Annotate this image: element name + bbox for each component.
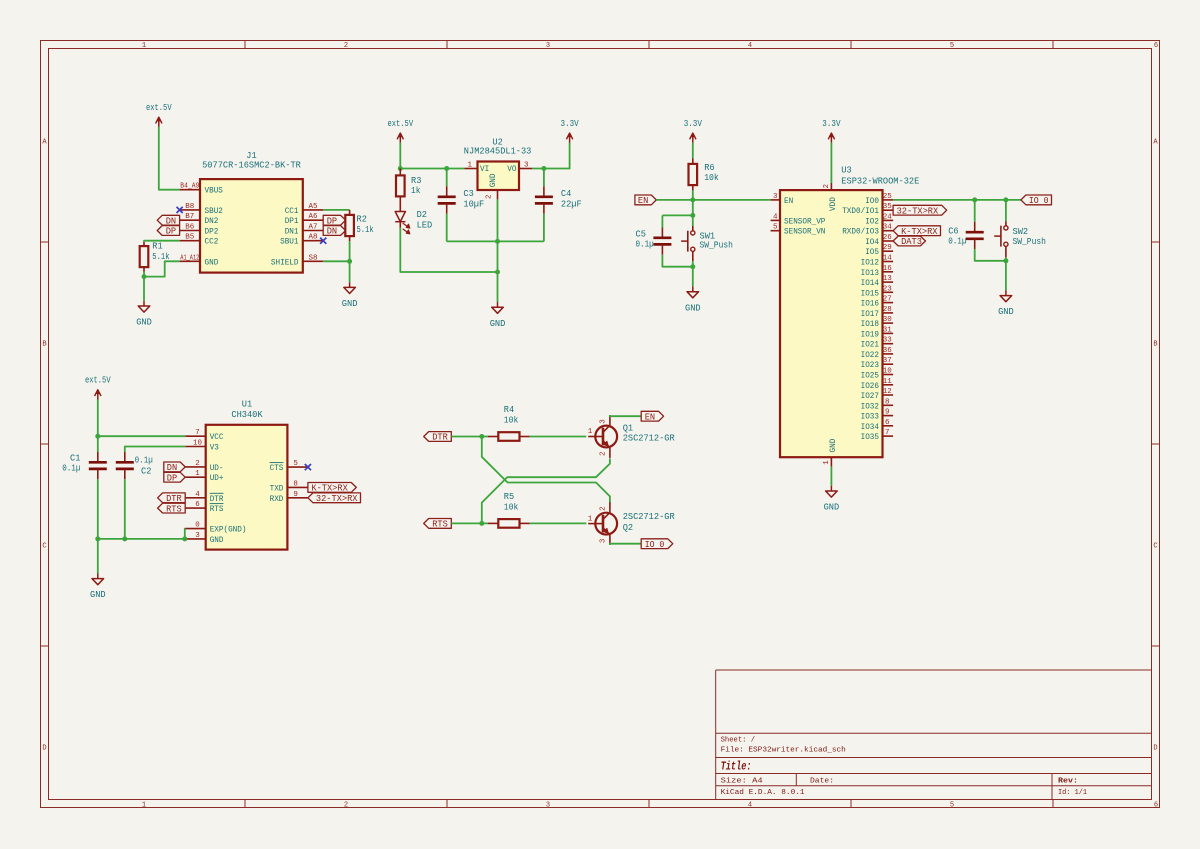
svg-text:A7: A7 <box>309 224 318 232</box>
svg-text:B7: B7 <box>185 213 194 221</box>
svg-text:5.1k: 5.1k <box>152 251 169 262</box>
svg-text:SBU2: SBU2 <box>205 207 223 216</box>
svg-text:C: C <box>1153 542 1157 550</box>
svg-text:TXD0/IO1: TXD0/IO1 <box>842 206 879 216</box>
svg-text:IO23: IO23 <box>861 361 879 370</box>
svg-text:ext.5V: ext.5V <box>388 118 414 129</box>
svg-text:IO14: IO14 <box>861 279 879 288</box>
svg-text:File: ESP32writer.kicad_sch: File: ESP32writer.kicad_sch <box>721 746 846 754</box>
svg-text:Q1: Q1 <box>623 422 634 433</box>
svg-text:IO25: IO25 <box>861 372 879 381</box>
svg-text:IO 0: IO 0 <box>1029 195 1049 206</box>
svg-text:NJM2845DL1-33: NJM2845DL1-33 <box>464 146 532 157</box>
svg-text:LED: LED <box>417 220 433 231</box>
svg-text:9: 9 <box>885 409 890 417</box>
svg-text:23: 23 <box>883 285 892 293</box>
svg-text:37: 37 <box>883 357 892 365</box>
svg-text:IO21: IO21 <box>861 341 879 350</box>
svg-text:IO22: IO22 <box>861 351 879 360</box>
svg-text:1: 1 <box>588 428 593 436</box>
svg-text:GND: GND <box>824 502 840 513</box>
svg-text:28: 28 <box>883 306 892 314</box>
svg-text:4: 4 <box>773 213 778 221</box>
svg-text:1: 1 <box>468 161 473 169</box>
svg-text:DP2: DP2 <box>205 228 219 237</box>
svg-text:0.1µ: 0.1µ <box>62 463 80 474</box>
svg-text:3.3V: 3.3V <box>561 118 579 129</box>
svg-text:1: 1 <box>142 801 146 809</box>
svg-text:GND: GND <box>136 317 152 328</box>
svg-text:3: 3 <box>773 193 778 201</box>
svg-text:IO17: IO17 <box>861 310 879 319</box>
svg-text:22µF: 22µF <box>561 198 582 209</box>
svg-text:6: 6 <box>1154 801 1158 809</box>
svg-text:Title:: Title: <box>721 760 752 773</box>
svg-text:3: 3 <box>546 801 550 809</box>
svg-text:VI: VI <box>480 165 489 174</box>
svg-text:32-TX>RX: 32-TX>RX <box>316 493 358 504</box>
svg-text:Date:: Date: <box>810 777 834 785</box>
svg-text:SW_Push: SW_Push <box>1013 236 1046 247</box>
svg-text:GND: GND <box>90 589 106 600</box>
svg-text:3: 3 <box>195 532 200 540</box>
svg-text:IO5: IO5 <box>865 248 879 257</box>
svg-text:D: D <box>42 744 46 752</box>
svg-text:DP1: DP1 <box>285 217 299 226</box>
svg-text:10k: 10k <box>704 172 719 183</box>
svg-text:GND: GND <box>829 439 838 453</box>
svg-text:EXP(GND): EXP(GND) <box>210 525 247 535</box>
svg-text:TXD: TXD <box>270 484 284 493</box>
svg-text:3: 3 <box>546 42 550 50</box>
svg-text:3: 3 <box>524 161 529 169</box>
svg-text:3: 3 <box>599 538 607 543</box>
svg-text:3.3V: 3.3V <box>684 118 702 129</box>
svg-text:VDD: VDD <box>829 197 838 211</box>
svg-text:2SC2712-GR: 2SC2712-GR <box>623 511 675 522</box>
svg-text:12: 12 <box>883 388 892 396</box>
svg-text:14: 14 <box>883 255 892 263</box>
svg-text:C: C <box>42 542 46 550</box>
svg-text:DN: DN <box>327 226 337 237</box>
svg-text:4: 4 <box>195 491 200 499</box>
svg-text:5: 5 <box>950 801 954 809</box>
svg-text:Sheet: /: Sheet: / <box>721 737 756 745</box>
svg-text:EN: EN <box>645 411 655 422</box>
svg-text:RXD: RXD <box>270 495 284 504</box>
svg-text:Rev:: Rev: <box>1058 777 1078 785</box>
svg-text:IO26: IO26 <box>861 382 879 391</box>
svg-text:GND: GND <box>210 536 224 545</box>
svg-text:RTS: RTS <box>210 505 224 514</box>
svg-text:Size: A4: Size: A4 <box>721 777 763 785</box>
svg-text:IO19: IO19 <box>861 330 879 339</box>
svg-text:S8: S8 <box>309 254 318 262</box>
svg-text:IO18: IO18 <box>861 320 879 329</box>
svg-text:RTS: RTS <box>166 503 182 514</box>
svg-text:2: 2 <box>344 42 348 50</box>
svg-text:0.1µ: 0.1µ <box>135 455 153 466</box>
svg-text:33: 33 <box>883 337 892 345</box>
svg-text:SBU1: SBU1 <box>280 238 298 247</box>
svg-text:RTS: RTS <box>432 519 448 530</box>
svg-text:K-TX>RX: K-TX>RX <box>311 483 348 494</box>
svg-text:7: 7 <box>885 429 890 437</box>
svg-text:24: 24 <box>883 213 892 221</box>
svg-text:B4_A9: B4_A9 <box>180 183 199 191</box>
svg-text:2: 2 <box>823 184 831 189</box>
svg-text:ESP32-WROOM-32E: ESP32-WROOM-32E <box>841 175 919 186</box>
svg-text:A1_A12: A1_A12 <box>180 254 199 262</box>
svg-text:5: 5 <box>773 224 778 232</box>
svg-text:A8: A8 <box>309 234 318 242</box>
svg-text:IO12: IO12 <box>861 259 879 268</box>
svg-text:B5: B5 <box>185 234 194 242</box>
svg-text:DTR: DTR <box>210 495 224 504</box>
svg-text:5: 5 <box>293 460 298 468</box>
svg-text:16: 16 <box>883 265 892 273</box>
svg-text:11: 11 <box>883 378 892 386</box>
svg-text:10µF: 10µF <box>463 198 484 209</box>
svg-text:3.3V: 3.3V <box>822 118 840 129</box>
svg-text:1: 1 <box>195 470 200 478</box>
svg-text:31: 31 <box>883 326 892 334</box>
svg-text:IO34: IO34 <box>861 423 879 432</box>
svg-text:GND: GND <box>489 173 498 187</box>
svg-text:VBUS: VBUS <box>205 187 223 196</box>
svg-text:2SC2712-GR: 2SC2712-GR <box>623 433 675 444</box>
svg-text:1: 1 <box>823 460 831 465</box>
svg-text:UD+: UD+ <box>210 474 224 483</box>
svg-text:B: B <box>1153 340 1157 348</box>
svg-text:A5: A5 <box>309 203 318 211</box>
svg-text:SW_Push: SW_Push <box>700 240 733 251</box>
svg-text:13: 13 <box>883 275 892 283</box>
svg-text:A: A <box>1153 138 1158 146</box>
svg-text:4: 4 <box>748 801 752 809</box>
svg-text:9: 9 <box>293 491 298 499</box>
svg-text:5: 5 <box>950 42 954 50</box>
svg-text:GND: GND <box>490 318 506 329</box>
svg-text:C2: C2 <box>141 466 152 477</box>
svg-text:8: 8 <box>885 398 890 406</box>
svg-text:DP: DP <box>167 472 178 483</box>
svg-text:36: 36 <box>883 347 892 355</box>
svg-text:5.1k: 5.1k <box>357 224 374 235</box>
svg-text:10: 10 <box>193 440 202 448</box>
svg-text:UD-: UD- <box>210 464 224 473</box>
svg-text:0.1µ: 0.1µ <box>948 236 966 247</box>
svg-text:6: 6 <box>195 501 200 509</box>
svg-text:SENSOR_VN: SENSOR_VN <box>784 228 825 237</box>
svg-text:DP: DP <box>166 226 177 237</box>
svg-text:EN: EN <box>638 195 648 206</box>
svg-text:D: D <box>1153 744 1157 752</box>
svg-text:5077CR-16SMC2-BK-TR: 5077CR-16SMC2-BK-TR <box>202 159 301 170</box>
svg-text:30: 30 <box>883 316 892 324</box>
svg-text:Id: 1/1: Id: 1/1 <box>1058 789 1087 797</box>
svg-text:ext.5V: ext.5V <box>85 375 111 386</box>
svg-text:DAT3: DAT3 <box>901 236 922 247</box>
svg-text:27: 27 <box>883 296 892 304</box>
svg-text:2: 2 <box>599 451 607 456</box>
svg-text:EN: EN <box>784 197 793 206</box>
svg-text:2: 2 <box>195 460 200 468</box>
svg-text:3: 3 <box>599 419 607 424</box>
svg-text:DN2: DN2 <box>205 217 219 226</box>
svg-text:DTR: DTR <box>432 432 448 443</box>
svg-text:GND: GND <box>205 258 219 267</box>
svg-text:2: 2 <box>486 194 494 199</box>
svg-text:IO13: IO13 <box>861 269 879 278</box>
svg-text:34: 34 <box>883 224 892 232</box>
svg-text:IO0: IO0 <box>865 197 879 206</box>
svg-text:U3: U3 <box>841 164 852 175</box>
svg-text:CTS: CTS <box>270 464 284 473</box>
svg-text:IO15: IO15 <box>861 289 879 298</box>
svg-text:GND: GND <box>342 298 358 309</box>
svg-text:IO27: IO27 <box>861 392 879 401</box>
svg-text:1: 1 <box>588 515 593 523</box>
svg-text:B6: B6 <box>185 224 194 232</box>
svg-text:Q2: Q2 <box>623 522 634 533</box>
svg-text:SHIELD: SHIELD <box>271 258 299 267</box>
svg-text:V3: V3 <box>210 444 219 453</box>
svg-text:IO35: IO35 <box>861 433 879 442</box>
svg-text:B: B <box>42 340 46 348</box>
svg-text:A6: A6 <box>309 213 318 221</box>
svg-text:RXD0/IO3: RXD0/IO3 <box>842 227 879 237</box>
svg-text:6: 6 <box>1154 42 1158 50</box>
svg-text:2: 2 <box>344 801 348 809</box>
svg-text:IO4: IO4 <box>865 238 879 247</box>
svg-text:VO: VO <box>507 165 516 174</box>
svg-text:0.1µ: 0.1µ <box>636 239 654 250</box>
svg-text:0: 0 <box>195 522 200 530</box>
svg-text:DN1: DN1 <box>285 228 299 237</box>
svg-text:CC2: CC2 <box>205 238 219 247</box>
svg-text:1: 1 <box>142 42 146 50</box>
svg-text:6: 6 <box>885 419 890 427</box>
svg-text:8: 8 <box>293 480 298 488</box>
svg-text:7: 7 <box>195 429 200 437</box>
svg-text:IO16: IO16 <box>861 300 879 309</box>
svg-text:25: 25 <box>883 193 892 201</box>
svg-text:VCC: VCC <box>210 433 224 442</box>
svg-text:10k: 10k <box>504 501 519 512</box>
svg-text:2: 2 <box>599 506 607 511</box>
svg-text:IO 0: IO 0 <box>645 539 665 550</box>
svg-text:1k: 1k <box>411 185 421 196</box>
svg-text:10k: 10k <box>504 415 519 426</box>
svg-text:4: 4 <box>748 42 752 50</box>
svg-text:IO2: IO2 <box>865 217 879 226</box>
svg-text:IO32: IO32 <box>861 402 879 411</box>
svg-text:IO33: IO33 <box>861 413 879 422</box>
svg-text:32-TX>RX: 32-TX>RX <box>897 205 939 216</box>
svg-text:GND: GND <box>998 306 1014 317</box>
svg-text:CC1: CC1 <box>285 207 299 216</box>
svg-text:CH340K: CH340K <box>231 409 262 420</box>
svg-text:A: A <box>42 138 47 146</box>
svg-text:26: 26 <box>883 234 892 242</box>
svg-text:ext.5V: ext.5V <box>146 102 172 113</box>
svg-text:B8: B8 <box>185 203 194 211</box>
svg-text:29: 29 <box>883 244 892 252</box>
svg-text:35: 35 <box>883 203 892 211</box>
svg-text:GND: GND <box>685 302 701 313</box>
svg-text:KiCad E.D.A. 8.0.1: KiCad E.D.A. 8.0.1 <box>721 789 805 797</box>
svg-text:SENSOR_VP: SENSOR_VP <box>784 217 825 226</box>
svg-text:10: 10 <box>883 368 892 376</box>
